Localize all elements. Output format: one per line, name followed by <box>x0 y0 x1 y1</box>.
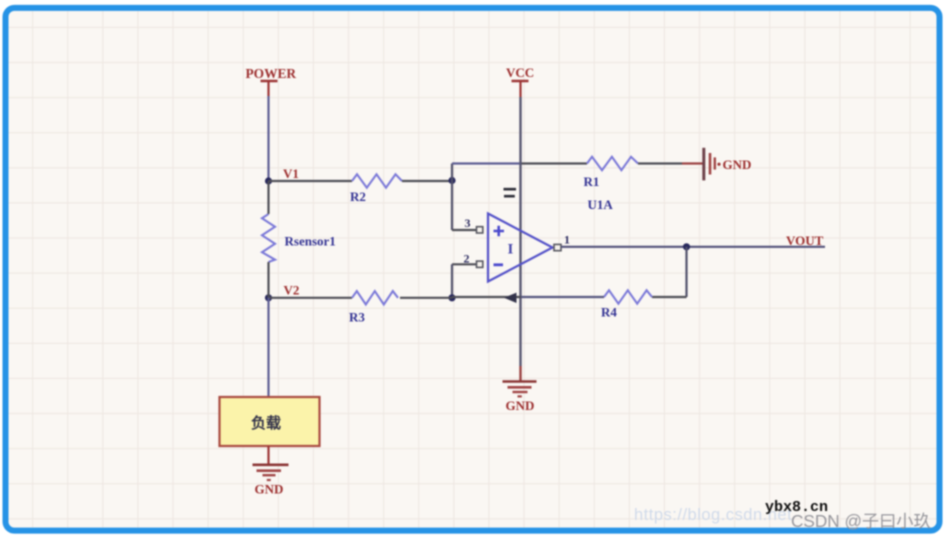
wire VOUT node down to R4 <box>652 296 687 298</box>
wire output to VOUT <box>561 246 825 248</box>
pin 2 terminal <box>477 261 483 267</box>
svg-text:3: 3 <box>465 216 471 230</box>
svg-text:GND: GND <box>506 398 535 413</box>
arrow marker on feedback wire <box>504 293 517 303</box>
node C junction (R3 / pin2 riser) <box>448 294 455 301</box>
resistor R3 <box>352 291 398 304</box>
pin 2 wire <box>452 263 477 265</box>
ground GND (bottom middle, earth style) <box>503 382 537 414</box>
wire POWER rail down to V1 <box>267 96 269 181</box>
node V1 junction <box>265 177 272 184</box>
pin 1 terminal <box>554 244 561 250</box>
resistor R2 <box>352 174 402 187</box>
node VOUT junction <box>683 243 690 250</box>
svg-text:VOUT: VOUT <box>786 233 824 248</box>
wire riser node B up to R1 rail and down to pin 3 <box>451 164 453 231</box>
svg-text:GND: GND <box>255 482 284 497</box>
wire feedback riser from VOUT node <box>685 247 687 297</box>
svg-text:1: 1 <box>564 233 570 247</box>
svg-text:V1: V1 <box>283 166 299 181</box>
resistor Rsensor1 (vertical) <box>262 214 275 262</box>
node B junction (R2 / riser) <box>448 177 455 184</box>
svg-text:R2: R2 <box>350 189 366 204</box>
wire riser pin 2 down to R3 node <box>451 264 453 297</box>
wire V2 to R3 <box>269 297 353 299</box>
svg-text:U1A: U1A <box>588 197 614 212</box>
wire R3 to node C <box>400 297 452 299</box>
load box (负载) <box>220 397 320 446</box>
wire R1 to GND port <box>638 162 682 164</box>
svg-text:2: 2 <box>464 252 470 266</box>
svg-text:GND: GND <box>723 157 752 172</box>
pin 3 terminal <box>477 227 483 233</box>
svg-text:Rsensor1: Rsensor1 <box>285 234 336 249</box>
svg-text:POWER: POWER <box>246 66 297 81</box>
wire V1 to R2 <box>269 180 353 182</box>
svg-text:R4: R4 <box>601 305 617 320</box>
power port GND (right, bar style) <box>704 148 752 181</box>
svg-text:V2: V2 <box>284 283 300 298</box>
node V2 junction <box>265 294 272 301</box>
svg-text:VCC: VCC <box>506 65 534 80</box>
ground GND (bottom left, earth style) <box>253 465 289 497</box>
resistor R1 <box>587 157 638 170</box>
pin 3 wire <box>452 229 477 231</box>
watermark faint url <box>634 506 792 525</box>
wire VCC rail down to GND <box>519 97 521 366</box>
wire V2 down to load box <box>267 298 269 397</box>
watermark CSDN @子曰小玖 <box>791 507 931 532</box>
resistor R4 <box>604 290 652 303</box>
power port POWER <box>246 66 297 96</box>
watermark ybx8.cn <box>765 499 828 516</box>
wire R2 to node B <box>402 180 452 182</box>
svg-text:I: I <box>508 242 514 258</box>
wire load box to GND <box>267 446 269 465</box>
svg-text:R1: R1 <box>584 174 600 189</box>
hidden power pins marker (=) <box>504 189 517 196</box>
svg-text:负载: 负载 <box>251 414 281 432</box>
wire R4 to node C <box>521 296 604 298</box>
svg-text:R3: R3 <box>349 310 365 325</box>
op-amp U1A <box>488 214 553 282</box>
power port VCC <box>506 65 534 97</box>
wire top to R1 <box>452 162 521 164</box>
